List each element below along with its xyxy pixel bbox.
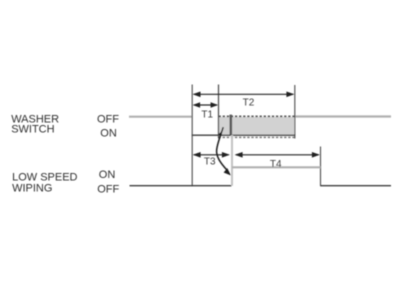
- low speed wiping ON level wire: [232, 166, 321, 168]
- curved leader arrow from bold bar to wiping rising edge: [217, 127, 231, 175]
- low speed wiping OFF wire (left segment): [130, 185, 232, 187]
- svg-text:OFF: OFF: [97, 183, 119, 195]
- washer switch ON level wire: [192, 134, 296, 136]
- svg-text:WIPING: WIPING: [12, 182, 52, 194]
- annotation line B at T1 end / box left edge: [218, 85, 220, 139]
- T4 dimension arrow: [235, 152, 320, 158]
- T1 dimension arrow: [193, 102, 219, 107]
- bold bar: actual switch-off instant: [230, 115, 233, 135]
- svg-text:T4: T4: [270, 159, 282, 170]
- washer switch OFF level wire (left segment): [129, 116, 192, 118]
- T2 dimension arrow: [193, 92, 295, 98]
- svg-text:ON: ON: [100, 127, 117, 139]
- T3 dimension arrow: [193, 152, 230, 158]
- svg-text:SWITCH: SWITCH: [11, 124, 54, 136]
- annotation line D / wiping falling edge: [320, 147, 322, 187]
- shaded uncertainty box: [219, 117, 295, 135]
- svg-text:ON: ON: [99, 169, 116, 181]
- svg-text:OFF: OFF: [97, 114, 119, 126]
- box top dashed border: [219, 115, 295, 117]
- svg-text:T1: T1: [201, 110, 213, 121]
- annotation line C at box right edge: [294, 85, 296, 139]
- svg-text:T2: T2: [243, 98, 255, 109]
- annotation line A at T1 start: [191, 85, 193, 187]
- svg-text:T3: T3: [204, 157, 216, 168]
- washer switch OFF level wire (right segment): [295, 115, 391, 117]
- low speed wiping rising edge (gray): [231, 135, 233, 186]
- box bottom dashed border: [219, 136, 295, 138]
- low speed wiping OFF wire (right segment): [321, 185, 392, 187]
